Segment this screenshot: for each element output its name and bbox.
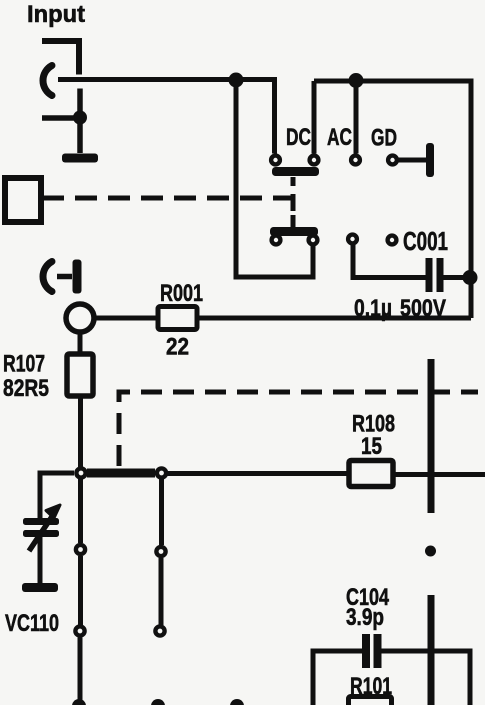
svg-text:VC110: VC110 — [5, 610, 59, 637]
ground bar GD — [426, 143, 434, 177]
capacitor VC110 bottom plate — [23, 530, 59, 537]
wire DC drop — [272, 77, 277, 154]
resistor R001 body — [158, 307, 197, 330]
wire left corner to VC110 branch — [40, 473, 74, 518]
switch bridge bar lower — [270, 227, 318, 236]
wire column A upper segment — [78, 478, 83, 543]
svg-text:3.9p: 3.9p — [346, 604, 384, 631]
junction dot shield — [73, 111, 87, 125]
svg-text:GD: GD — [371, 125, 397, 152]
wire connector shield vertical — [77, 89, 83, 154]
connector J1 shell hook — [42, 41, 79, 75]
wire top main left segment — [58, 77, 277, 82]
wire top main right segment — [314, 79, 474, 84]
svg-text:C001: C001 — [403, 226, 448, 256]
contact ring GD top — [388, 156, 397, 165]
ground bar VC110 — [22, 583, 58, 592]
contact ring lower 1 — [272, 236, 281, 245]
contact ring mid row right — [157, 468, 166, 477]
junction dot bottom edge C — [230, 699, 244, 705]
wire column B upper segment — [159, 478, 164, 545]
capacitor C001 right plate — [437, 258, 444, 292]
shield chain line dot — [425, 546, 436, 557]
junction dot C001 right — [463, 270, 478, 285]
wire C104 left branch — [313, 651, 362, 705]
wire AC drop — [312, 81, 317, 154]
connector J1 socket arc — [43, 66, 52, 96]
contact ring column A mid — [76, 545, 85, 554]
capacitor C001 left plate — [426, 258, 433, 292]
svg-text:22: 22 — [166, 334, 189, 361]
VC110 adjustment arrow — [29, 505, 60, 551]
wire R107 down to contact row — [78, 396, 83, 467]
shield chain line lower segment — [428, 595, 435, 705]
junction dot bottom edge B — [151, 699, 165, 705]
contact ring lower 2 — [309, 236, 318, 245]
wire column A bottom segment — [78, 638, 83, 705]
wire mid row to R108 — [167, 471, 349, 476]
contact ring mid row left — [76, 468, 85, 477]
svg-text:82R5: 82R5 — [3, 375, 49, 402]
wire third contact drop — [354, 81, 359, 154]
dashed linkage vertical between bridges — [291, 177, 296, 228]
wire node to R001 and rail — [96, 316, 471, 321]
svg-text:DC: DC — [286, 124, 311, 151]
svg-text:R001: R001 — [160, 280, 203, 307]
switch bridge bar mid — [87, 469, 155, 478]
wire node down to R107 — [78, 332, 83, 354]
junction dot top wire left — [229, 73, 244, 88]
contact ring DC top — [271, 156, 280, 165]
contact ring third top — [351, 156, 360, 165]
junction dot bottom edge A — [72, 699, 86, 705]
wire input branch down (left vertical of switch) — [236, 80, 313, 277]
wire lower contact 3 to C001 — [353, 245, 426, 278]
wire right rail vertical — [469, 79, 474, 319]
contact ring column B low — [155, 626, 164, 635]
wire column A middle segment — [78, 556, 83, 625]
wire column B middle segment — [159, 558, 164, 625]
contact ring column B mid — [156, 547, 165, 556]
connector J2 pin bar — [73, 260, 82, 294]
wire R108 to right edge — [393, 472, 485, 477]
resistor R107 body — [67, 354, 93, 396]
dashed linkage horizontal from actuator — [42, 196, 291, 201]
connector J2 pin stub — [57, 274, 72, 280]
wire C001 to right rail — [443, 275, 471, 280]
capacitor C104 left plate — [362, 634, 370, 668]
svg-text:R107: R107 — [3, 351, 45, 378]
contact ring AC top — [310, 156, 319, 165]
wire GD to ground — [398, 158, 428, 163]
dashed linkage lower: vertical and horizontal to right edge — [119, 392, 478, 466]
capacitor VC110 top plate — [23, 518, 59, 525]
ground bar input — [62, 154, 98, 163]
wire VC110 to ground — [38, 537, 43, 583]
contact ring lower 3 — [348, 235, 357, 244]
connector J2 socket arc — [43, 262, 52, 292]
resistor R108 body — [349, 461, 393, 487]
switch bridge bar upper — [272, 167, 319, 176]
junction dot top wire right — [349, 73, 364, 88]
svg-text:15: 15 — [361, 433, 382, 460]
wire C104 right branch — [381, 651, 470, 705]
svg-text:AC: AC — [327, 124, 352, 151]
shield chain line upper segment — [428, 359, 435, 513]
capacitor C104 right plate — [374, 634, 382, 668]
wire shield stub — [42, 115, 80, 121]
contact ring column A low — [75, 626, 84, 635]
node circle probe point — [66, 304, 94, 332]
svg-text:Input: Input — [27, 1, 85, 28]
contact ring lower 4 unconnected — [388, 236, 397, 245]
switch actuator square — [5, 178, 41, 222]
resistor R101 body (clipped at bottom) — [349, 697, 392, 705]
